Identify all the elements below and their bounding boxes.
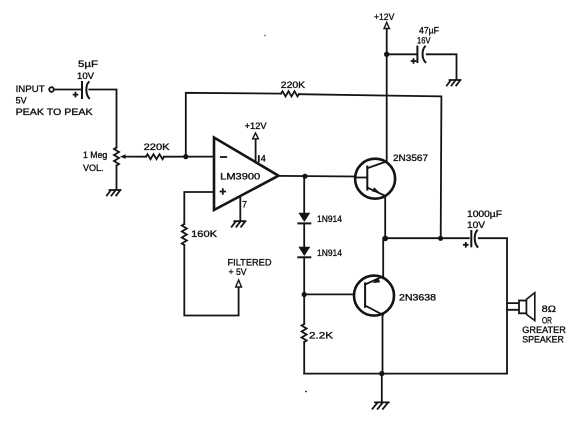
- resistor R3 220K feedback: [281, 80, 305, 96]
- node output junction: [302, 174, 307, 179]
- wire +12V rail to Q1 collector: [386, 54, 388, 162]
- ground at bottom: [373, 402, 389, 409]
- svg-text:10V: 10V: [77, 71, 94, 81]
- node bottom junction: [379, 371, 384, 376]
- svg-text:16V: 16V: [417, 35, 431, 45]
- wire to Q2 base: [304, 293, 354, 295]
- capacitor C3 1000uF: [464, 209, 503, 247]
- svg-text:VOL.: VOL.: [83, 163, 104, 173]
- svg-text:1000µF: 1000µF: [467, 209, 503, 219]
- bottom rail wire: [304, 373, 507, 375]
- op-amp pin 14 with +12V supply: [245, 121, 267, 163]
- wire output node down to D1: [303, 176, 305, 213]
- resistor R5 2.2K: [302, 295, 333, 374]
- svg-text:GREATER: GREATER: [522, 325, 566, 335]
- capacitor C1 5uF: [74, 59, 99, 98]
- svg-text:OR: OR: [542, 315, 552, 325]
- wire D1 to D2: [303, 223, 305, 246]
- svg-text:1N914: 1N914: [317, 248, 342, 258]
- ground at pin 7: [232, 221, 246, 227]
- +12V supply top: [374, 12, 394, 54]
- ground at C2: [447, 80, 461, 86]
- speck artifact: [305, 391, 307, 393]
- wire D2 to Q2 base node: [303, 257, 305, 294]
- svg-text:1N914: 1N914: [317, 214, 342, 224]
- svg-text:8Ω: 8Ω: [542, 304, 557, 314]
- speaker terminals stubs: [507, 303, 519, 310]
- wire C1 to pot top: [89, 90, 116, 148]
- wire Q2 emitter up to node: [382, 238, 384, 276]
- wire Q1 emitter to output node: [384, 196, 386, 238]
- svg-text:10V: 10V: [467, 220, 485, 230]
- node 47uF junction: [384, 52, 389, 57]
- wire non-inverting input: [184, 192, 213, 224]
- input terminal: [49, 87, 54, 92]
- resistor R2 220K input: [144, 142, 170, 159]
- svg-text:47µF: 47µF: [419, 25, 439, 35]
- svg-text:INPUT: INPUT: [16, 84, 46, 94]
- svg-text:2.2K: 2.2K: [309, 331, 333, 341]
- wire Q2 collector down to rail: [382, 315, 384, 374]
- svg-text:4: 4: [261, 153, 266, 163]
- svg-text:FILTERED: FILTERED: [228, 258, 273, 268]
- wire feedback right to output node: [299, 94, 441, 238]
- svg-text:2N3638: 2N3638: [399, 293, 436, 303]
- svg-text:LM3900: LM3900: [220, 172, 260, 182]
- wire input to C1: [54, 89, 81, 91]
- diode D1 1N914: [298, 213, 342, 224]
- svg-text:+12V: +12V: [374, 12, 394, 22]
- svg-text:1 Meg: 1 Meg: [83, 150, 107, 160]
- svg-text:160K: 160K: [191, 229, 217, 239]
- wire feedback left vertical: [186, 93, 281, 157]
- INPUT label: [16, 84, 93, 117]
- diode D2 1N914: [298, 247, 342, 258]
- wire junction to ground: [381, 374, 383, 403]
- speaker: [519, 293, 566, 345]
- FILTERED +5V supply: [228, 258, 273, 288]
- op-amp U1 LM3900: [214, 138, 279, 211]
- svg-text:220K: 220K: [281, 80, 305, 90]
- node feedback junction: [438, 236, 443, 241]
- speck artifact top: [264, 35, 266, 37]
- svg-text:7: 7: [242, 199, 247, 209]
- node output stage junction: [383, 236, 389, 242]
- node Q2 base junction: [302, 292, 307, 297]
- resistor R4 160K: [182, 224, 217, 245]
- capacitor C2 47uF: [387, 25, 457, 79]
- wire op-amp output: [279, 175, 356, 178]
- svg-text:+12V: +12V: [245, 121, 267, 131]
- transistor Q2 2N3638: [354, 276, 436, 316]
- node inverting input: [183, 154, 188, 159]
- svg-text:2N3567: 2N3567: [393, 153, 428, 163]
- svg-text:5V: 5V: [16, 95, 27, 105]
- potentiometer R1 1 Meg: [83, 148, 146, 190]
- wire 160K to filtered node: [184, 245, 238, 316]
- svg-text:5µF: 5µF: [78, 59, 99, 69]
- svg-text:+ 5V: + 5V: [229, 267, 247, 277]
- transistor Q1 2N3567: [355, 153, 428, 199]
- op-amp pin 7: [240, 196, 247, 220]
- svg-text:PEAK TO PEAK: PEAK TO PEAK: [16, 107, 93, 117]
- svg-text:220K: 220K: [144, 142, 170, 152]
- ground at pot: [107, 190, 121, 196]
- wire 220K to inverting input: [164, 156, 214, 158]
- wire C3 to speaker line: [479, 238, 507, 373]
- svg-text:SPEAKER: SPEAKER: [522, 335, 564, 345]
- wire output node to C3: [385, 237, 469, 239]
